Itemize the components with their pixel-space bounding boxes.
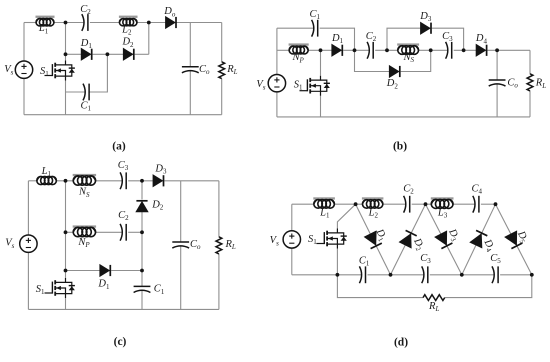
capacitor C3 (b) [442,31,453,59]
wire (b) D3 branch riser left [387,28,421,50]
node (b) NP-S1 junction [319,48,323,52]
node (c) L1-NS junction [64,179,68,183]
wire (b) Co branch lower [496,84,498,117]
caption (c) [114,336,127,348]
voltage source Vs (d) [270,231,301,248]
inductor L3 (d) [431,197,454,219]
wire (b) C1 rail right [320,28,355,50]
wire (d) bottom rail left [292,274,338,276]
wire (b) right branch to RL [529,50,531,74]
wire (c) C1 riser [141,271,143,287]
wire (d) top rail left [292,203,314,205]
wire (a) S1 source to bottom rail [65,81,67,115]
diode D3 (b) [419,11,432,34]
MOSFET S1 (d) [308,229,347,249]
caption (b) [393,141,407,153]
node (a) L2-Do junction [147,21,151,25]
node (d) S1 source junction [336,273,340,277]
wire (d) node to L3 [426,203,432,205]
diode D5 (d) [505,229,530,249]
inductor L1 [36,16,55,36]
wire (d) diagonal D5 [496,204,532,275]
wire (a) C1 branch right [89,54,107,92]
wire (a) left branch top [23,23,25,62]
wire (a) D1 row middle [93,53,124,55]
wire (c) left branch top [27,181,29,235]
node (b) C2-D3 junction [385,48,389,52]
caption (a) [112,141,126,153]
diode D2 (d) [399,230,426,252]
diode D1 (c) [97,265,110,291]
capacitor C1 (c) [134,284,165,296]
wire (a) top rail L1 to C2 [54,22,84,24]
inductor NS [397,43,419,64]
resistor RL (d) [423,295,445,314]
wire (d) node to C3 [391,274,424,276]
diode D3 (c) [153,163,167,186]
capacitor C2 (d) [403,184,414,213]
wire (d) C4 to node [481,203,496,205]
diode D4 (b) [475,33,488,56]
wire (c) Co branch lower [180,246,182,310]
wire (b) NS to C3 [419,49,448,51]
inductor L2 (d) [362,197,384,219]
wire (b) D3 branch right [432,28,464,50]
node (b) C3-D3 junction [462,48,466,52]
wire (b) Co branch upper [496,50,498,80]
wire (d) L2 to C2 [383,203,406,205]
node (a) D1 anode junction [64,52,68,56]
wire (c) C2 to node [128,231,142,233]
node (d) C1-D1-D2 junction [389,273,393,277]
node (d) C5-D5-RL junction [530,273,534,277]
diode D2 (b) [386,66,400,91]
wire (d) RL rail left [337,275,423,298]
wire (b) main NP left [277,49,289,51]
wire (a) D2 to riser [135,53,149,55]
wire (c) C3 to D3 [128,180,153,182]
diode D4 (d) [470,230,497,253]
wire (c) D1 row right [111,270,142,272]
wire (c) RL to bottom rail [218,254,220,310]
wire (d) node to C5 [462,274,494,276]
wire (d) S1 source [336,249,338,275]
wire (b) S1 source [320,96,322,117]
wire (b) D1 to C2 [343,49,369,51]
wire (d) diagonal D4 [462,204,496,275]
node (c) C2-D2 junction [140,230,144,234]
node (d) L1-L2-S1-D1 junction [354,202,358,206]
wire (a) top rail Do to corner [176,22,221,24]
node (a) L1-S1 junction [64,21,68,25]
wire (d) C2 to node [412,203,426,205]
wire (c) middle to D1 row [141,232,143,270]
capacitor C3 (d) [420,253,431,283]
node (c) NP junction [64,230,68,234]
MOSFET S1 (c) [36,278,75,298]
wire (b) C3 to D4 [454,49,476,51]
diode D1 (d) [364,227,388,249]
wire (c) left branch bottom [27,252,29,309]
wire (a) C1 branch left [66,91,85,93]
wire (b) bottom rail [277,116,530,118]
wire (a) D1 row left [66,53,82,55]
wire (c) D2 to middle node [141,212,143,232]
MOSFET S1 (a) [40,61,75,81]
wire (a) Co branch lower [189,71,191,115]
resistor RL [219,62,238,79]
inductor L1 (c) [37,166,57,185]
diode D1 (b) [331,33,344,56]
wire (d) diagonal D3 [426,204,462,275]
wire (c) NS to C3 [96,180,122,182]
node (d) C3-D3-D4 junction [460,273,464,277]
voltage source Vs (b) [256,75,285,92]
wire (a) Co branch upper [189,23,191,67]
wire (b) S1 drain [320,50,322,75]
wire (c) bottom rail [28,308,219,310]
wire (c) L1 to NS [56,180,73,182]
wire (a) node A to D1 row and S1 drain [65,23,67,61]
inductor NP [289,43,309,64]
capacitor C5 (d) [490,253,501,283]
capacitor Co (b) [489,77,519,89]
diode D2 (c) [136,199,164,212]
wire (d) C3 to node [430,274,462,276]
wire (b) D2 branch left [355,50,390,71]
wire (a) top rail C2 to L2 [90,22,120,24]
wire (a) D2 riser to top rail [148,23,150,55]
wire (a) bottom rail [24,114,222,116]
wire (a) top rail L2 to Do [137,22,166,24]
capacitor C2 [80,4,91,31]
wire (c) middle row NP [66,231,74,233]
node (c) C3-D3-D2 junction [140,179,144,183]
inductor L1 (d) [313,197,335,219]
wire (b) D4 to corner [488,49,531,51]
node (c) S1-D1 junction [64,269,68,273]
wire (c) S1 source to rail [65,298,67,309]
diode Do [163,6,176,28]
wire (a) RL to bottom rail [221,79,223,115]
wire (a) top rail [24,22,36,24]
resistor RL (c) [216,237,236,254]
wire (b) RL to bottom [529,91,531,117]
wire (d) L3 to C4 [453,203,475,205]
wire (c) Co branch upper [180,181,182,242]
MOSFET S1 (b) [294,76,330,96]
svg-text:(b): (b) [393,141,407,153]
diode D1 [80,38,93,60]
node (b) C1-D1-D2 junction [353,48,357,52]
capacitor C4 (d) [471,184,482,213]
wire (d) diagonal D1 [356,204,391,275]
wire (b) D2 branch right [401,50,431,71]
resistor RL (b) [527,74,546,91]
node (c) D1-C1 junction [140,269,144,273]
node (d) C4-D4-D5 junction [494,202,498,206]
node (d) C2-L3-D2-D3 junction [424,202,428,206]
wire (c) D1 row left [66,270,100,272]
wire (a) right branch to RL [221,23,223,63]
wire (d) left branch top [291,204,293,231]
wire (c) D3 to corner [164,180,219,182]
svg-text:(a): (a) [112,141,126,153]
diode D2 [121,37,134,61]
capacitor C2 (b) [366,31,377,59]
wire (b) NP to D1 [308,49,332,51]
wire (b) C2 to NS [375,49,398,51]
svg-text:(d): (d) [394,337,408,349]
wire (c) top row left [28,180,36,182]
node (b) D4 output junction [495,48,499,52]
wire (c) NP to C2 [96,231,122,233]
wire (b) left branch top [276,28,278,74]
wire (b) C1 rail left [277,27,314,29]
wire (d) S1 diagonal drain [337,204,355,228]
capacitor Co (c) [172,239,201,251]
wire (d) node to L2 [356,203,363,205]
node (a) D1-D2 junction [106,52,110,56]
capacitor Co [182,64,210,76]
wire (c) left vertical bus [65,181,67,278]
svg-text:(c): (c) [114,336,127,348]
wire (a) left branch bottom [23,78,25,114]
wire (d) RL rail right [445,275,532,298]
capacitor C2 (c) [118,210,129,241]
caption (d) [394,337,408,349]
capacitor C1 [80,84,91,113]
wire (c) D2 riser top [141,181,143,200]
node (b) NS-D2 junction [429,48,433,52]
inductor L2 [119,16,138,37]
wire (d) L1 to node [334,203,355,205]
inductor NP (c) [73,225,96,249]
wire (c) C1 to bottom rail [141,290,143,309]
inductor NS (c) [73,174,96,199]
voltage source Vs (c) [5,235,37,252]
wire (d) C5 to node [500,274,532,276]
diode D3 (d) [435,226,462,248]
wire (d) diagonal D2 [391,204,426,275]
wire (d) C1 to node [368,274,391,276]
wire (b) left branch bottom [276,92,278,117]
capacitor C1 (b) [309,9,320,37]
capacitor C3 (c) [118,160,129,189]
wire (d) bottom to C1 [337,274,361,276]
capacitor C1 (d) [359,255,370,283]
wire (d) left branch bottom [291,248,293,275]
wire (c) right branch to RL [218,181,220,237]
voltage source Vs (a) [4,61,32,78]
